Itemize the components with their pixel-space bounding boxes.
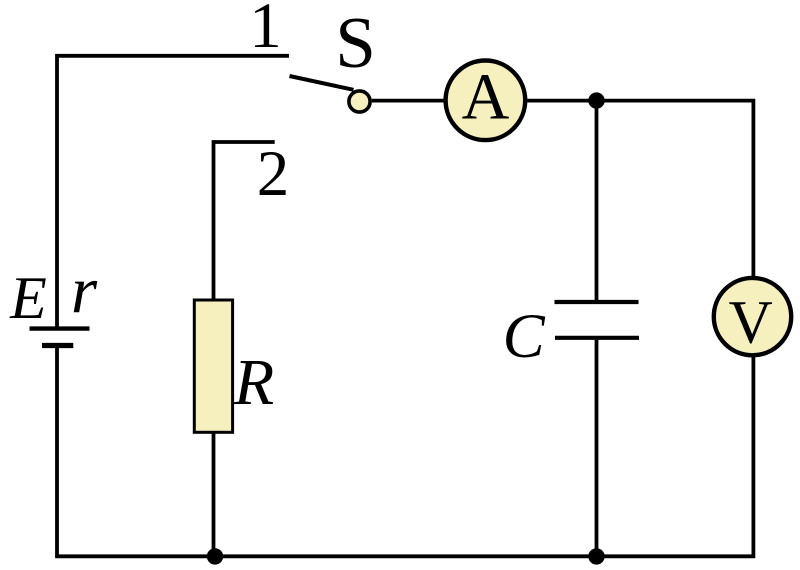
- capacitor C bottom plate: [555, 336, 639, 340]
- junction node dot bottom middle: [588, 548, 604, 564]
- svg-text:R: R: [233, 346, 274, 419]
- svg-text:E: E: [9, 265, 47, 331]
- junction node dot top (capacitor branch tap): [588, 92, 604, 108]
- svg-text:S: S: [335, 2, 376, 83]
- battery E r: short plate (negative): [42, 343, 73, 348]
- wire: top lead from battery to switch terminal 1 and left vertical down to battery: [57, 56, 289, 327]
- svg-text:r: r: [71, 254, 98, 328]
- battery E r: long plate (positive): [30, 326, 90, 330]
- voltmeter V circle: [714, 278, 791, 355]
- wire: switch terminal 2 lead and resistor branch upper vertical: [214, 142, 275, 300]
- svg-text:2: 2: [257, 138, 290, 210]
- svg-text:A: A: [462, 61, 510, 134]
- switch S blade: [290, 76, 354, 90]
- ammeter A circle: [446, 61, 526, 141]
- wire: switch pivot to ammeter: [372, 99, 444, 103]
- wire: left vertical below battery, bottom wire, right vertical up to voltmeter: [57, 348, 753, 557]
- junction node dot bottom left: [207, 548, 223, 564]
- wire: capacitor branch upper vertical: [595, 101, 599, 301]
- switch S pivot circle: [349, 91, 370, 112]
- capacitor C top plate: [555, 300, 639, 304]
- svg-text:V: V: [729, 289, 773, 356]
- wire: resistor branch lower vertical: [212, 432, 216, 556]
- wire: ammeter to top-right corner down to voltmeter: [527, 101, 753, 277]
- wire: capacitor branch lower vertical: [595, 340, 599, 557]
- svg-text:C: C: [503, 301, 546, 371]
- svg-text:1: 1: [249, 0, 282, 62]
- resistor R body: [194, 300, 232, 432]
